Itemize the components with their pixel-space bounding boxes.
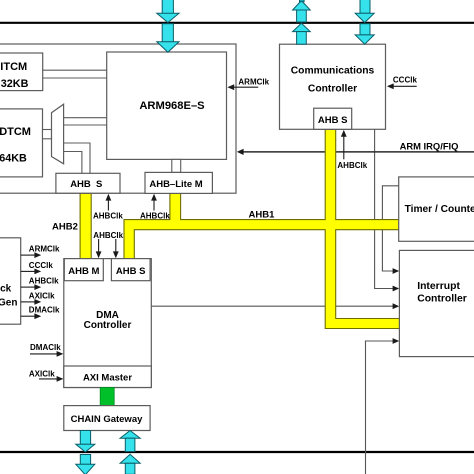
svg-text:Controller: Controller xyxy=(308,83,357,94)
wire ITCM bus ribbon xyxy=(43,70,107,78)
ARM subsystem outer box xyxy=(0,44,236,193)
svg-text:AHBClk: AHBClk xyxy=(29,277,59,286)
block ARM968E-S xyxy=(107,52,227,159)
pad arrow down from gateway (upper) xyxy=(76,431,95,453)
svg-text:Controller: Controller xyxy=(84,320,132,331)
wire DMA IRQ to interrupt controller xyxy=(151,305,394,307)
svg-text:AXIClk: AXIClk xyxy=(29,370,55,379)
wire ARM IRQ/FIQ xyxy=(242,151,474,153)
wire clock stub DMAClk xyxy=(21,315,36,317)
svg-text:ITCM: ITCM xyxy=(0,61,27,73)
svg-text:AHB S: AHB S xyxy=(116,266,146,277)
block Interrupt Controller xyxy=(399,250,474,356)
svg-text:AHBClk: AHBClk xyxy=(93,231,123,240)
svg-text:ARM968E–S: ARM968E–S xyxy=(139,100,205,112)
pad arrow up into gateway (lower) xyxy=(120,454,140,474)
wire clock stub CCClk xyxy=(21,270,36,272)
wire clock stub ARMClk xyxy=(21,254,36,256)
svg-text:32KB: 32KB xyxy=(1,78,29,90)
svg-text:Controller: Controller xyxy=(417,293,467,304)
block ITCM 32KB xyxy=(0,53,43,91)
svg-text:Clock: Clock xyxy=(0,284,12,295)
block CHAIN Gateway xyxy=(64,406,150,431)
block Clock Gen xyxy=(0,238,21,324)
svg-text:AHBClk: AHBClk xyxy=(337,161,367,170)
svg-text:AHB M: AHB M xyxy=(68,266,99,277)
wire bottom IRQ from pads to interrupt controller xyxy=(366,341,395,474)
port AHB-Lite M xyxy=(145,172,212,193)
svg-text:ARMClk: ARMClk xyxy=(238,78,269,87)
svg-text:AXIClk: AXIClk xyxy=(29,292,55,301)
pad arrow up into gateway (upper) xyxy=(120,431,140,452)
pad arrow down from gateway (lower) xyxy=(76,455,95,474)
wire stub ARM to AHB-Lite M xyxy=(172,159,181,172)
svg-text:DMAClk: DMAClk xyxy=(30,343,61,352)
pad arrow down into ARM (upper) xyxy=(157,0,179,23)
wire DMAClk into DMA xyxy=(30,353,58,355)
svg-text:ARMClk: ARMClk xyxy=(29,245,60,254)
wire clock stub AHBClk xyxy=(21,286,36,288)
svg-text:AHBClk: AHBClk xyxy=(140,212,170,221)
connector green AXI link xyxy=(100,388,114,406)
svg-text:DTCM: DTCM xyxy=(0,126,31,138)
svg-text:64KB: 64KB xyxy=(0,153,27,165)
wire ARMClk into ARM xyxy=(234,86,259,88)
svg-text:AHB2: AHB2 xyxy=(52,222,78,233)
svg-text:Gen: Gen xyxy=(0,298,17,309)
pad arrow down into comms (upper) xyxy=(355,0,374,23)
bus yellow AHB2 xyxy=(80,193,91,258)
pad arrow up from comms (lower) xyxy=(293,23,311,44)
pad arrow down into ARM (lower) xyxy=(157,24,179,53)
wire CCClk into comms xyxy=(393,85,417,87)
port AHB S (comms) xyxy=(314,108,352,129)
block DMA Controller xyxy=(64,259,152,388)
block Communications Controller xyxy=(280,44,386,129)
chip boundary line bottom xyxy=(0,451,474,453)
svg-text:CHAIN Gateway: CHAIN Gateway xyxy=(71,414,144,425)
svg-text:AHB1: AHB1 xyxy=(249,209,276,220)
svg-text:Communications: Communications xyxy=(291,65,375,76)
wire AHBClk up arrow (comms AHB S) xyxy=(343,136,345,160)
svg-text:ARM IRQ/FIQ: ARM IRQ/FIQ xyxy=(400,141,459,152)
wire DTCM bus ribbon to ARM xyxy=(64,118,107,125)
port AHB S (DMA) xyxy=(111,259,150,281)
svg-text:AXI Master: AXI Master xyxy=(83,373,132,384)
wire AHBClk up arrow 1 (ARM AHB S) xyxy=(107,200,109,211)
wire ribbon trapezoid to AHB S xyxy=(64,143,90,173)
svg-text:AHBClk: AHBClk xyxy=(93,212,123,221)
chip boundary line top xyxy=(0,22,474,24)
port AXI Master xyxy=(64,366,152,388)
svg-text:AHB S: AHB S xyxy=(318,115,348,126)
svg-text:Timer / Counter: Timer / Counter xyxy=(405,204,474,215)
pad arrow up from comms (upper) xyxy=(293,0,311,22)
svg-text:AHB–Lite M: AHB–Lite M xyxy=(149,179,202,190)
block Timer / Counter xyxy=(399,177,474,241)
pad arrow down into comms (lower) xyxy=(355,24,374,45)
wire DTCM stub xyxy=(43,130,52,139)
mux trapezoid DTCM interface xyxy=(52,104,64,164)
wire AXIClk into AXI Master xyxy=(39,378,58,380)
svg-text:Interrupt: Interrupt xyxy=(417,281,460,292)
svg-text:CCClk: CCClk xyxy=(393,76,418,85)
wire clock stub AXIClk xyxy=(21,301,36,303)
wire comms IRQ to interrupt controller xyxy=(375,129,394,288)
svg-text:AHB S: AHB S xyxy=(70,179,102,190)
wire timer IRQ to interrupt controller xyxy=(382,186,398,271)
wire AHBClk up arrow 2 (AHB-Lite M) xyxy=(153,200,155,211)
bus yellow AHB net (AHB1, comms AHB, DMA AHB, interrupt branch) xyxy=(124,129,400,328)
wire AHBClk down arrows (DMA) xyxy=(98,239,100,253)
svg-text:CCClk: CCClk xyxy=(29,261,54,270)
svg-text:DMAClk: DMAClk xyxy=(29,306,60,315)
port AHB S (ARM) xyxy=(56,173,120,193)
block DTCM 64KB xyxy=(0,109,43,177)
port AHB M (DMA) xyxy=(64,259,103,281)
